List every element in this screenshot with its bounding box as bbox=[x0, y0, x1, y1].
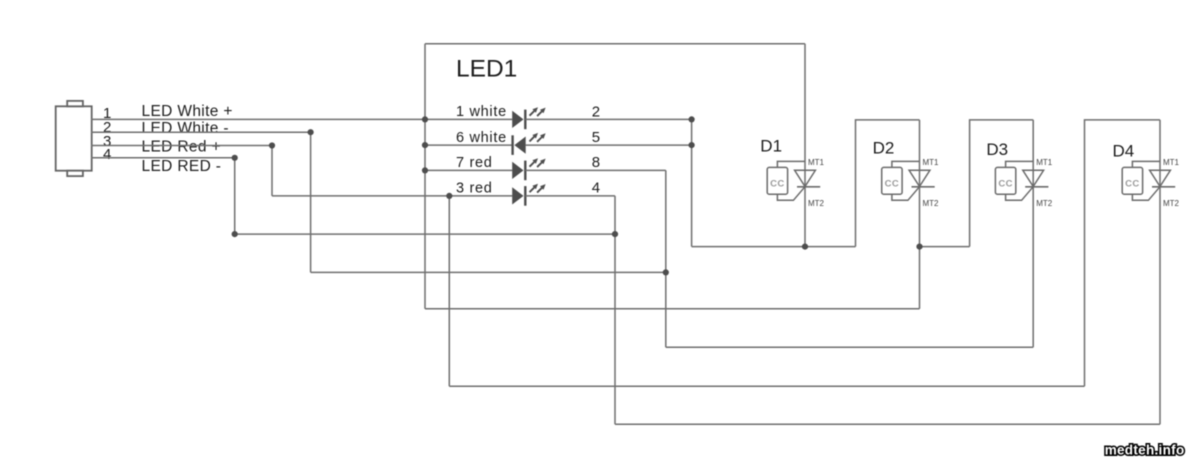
LED row3 light arrows bbox=[530, 158, 546, 167]
triac D3 with CC trigger bbox=[995, 158, 1052, 208]
wire pin2 horizontal (LED White -) bbox=[91, 131, 311, 133]
node dot wire1 at bus bbox=[422, 116, 428, 122]
wire D1 main vertical bbox=[804, 44, 806, 247]
svg-text:3 red: 3 red bbox=[456, 181, 493, 197]
node dot pin8 net junction bbox=[663, 269, 669, 275]
node dot D2 MT2 bbox=[916, 244, 922, 250]
wire D4 feed vertical from row4 node bbox=[448, 196, 450, 386]
wire D2 MT2 stub right bbox=[920, 246, 970, 248]
svg-text:LED RED -: LED RED - bbox=[142, 158, 222, 175]
svg-text:2: 2 bbox=[592, 103, 600, 120]
wire D2 MT2 return to bus bbox=[425, 308, 920, 310]
wire LED1 pin5 output bbox=[526, 144, 692, 146]
node dot output2 corner bbox=[689, 116, 695, 122]
connector J1 body bbox=[56, 101, 92, 176]
wire D4 MT2 return to node x615 bbox=[615, 423, 1160, 425]
LED D row3 red bbox=[512, 161, 525, 181]
wire node x615 vertical (pin4 net) bbox=[614, 196, 616, 424]
wire D4 feed bottom run bbox=[449, 385, 1084, 387]
wire pin4 bottom run to node x615 bbox=[235, 233, 615, 235]
wire pin3 horizontal (LED Red +) bbox=[91, 145, 272, 147]
svg-text:7 red: 7 red bbox=[456, 155, 493, 171]
svg-text:1 white: 1 white bbox=[456, 104, 507, 120]
node dot D1 MT2 bbox=[802, 244, 808, 250]
triac D4 with CC trigger bbox=[1122, 158, 1179, 208]
node dot row4 branch bbox=[446, 193, 452, 199]
svg-text:D4: D4 bbox=[1113, 142, 1135, 161]
LED D row4 red bbox=[512, 186, 525, 206]
svg-text:LED White +: LED White + bbox=[142, 103, 233, 120]
wire riser to D2 MT1 bbox=[856, 120, 920, 247]
svg-text:4: 4 bbox=[592, 180, 600, 197]
wire row2 stub from bus bbox=[425, 144, 513, 146]
wire D4 feed riser to MT1 bbox=[1085, 120, 1161, 386]
svg-text:8: 8 bbox=[592, 154, 600, 171]
svg-text:D2: D2 bbox=[873, 139, 895, 158]
wire LED1 pin8 output bbox=[525, 169, 666, 171]
wire D2 main vertical bbox=[919, 120, 921, 309]
svg-text:LED1: LED1 bbox=[456, 56, 517, 83]
svg-text:LED Red +: LED Red + bbox=[142, 139, 221, 156]
wire riser to D3 MT1 bbox=[970, 120, 1034, 247]
node dot wire4 bottom corner bbox=[232, 231, 238, 237]
node dot row2 at bus bbox=[422, 142, 428, 148]
LED row2 light arrows bbox=[530, 133, 546, 142]
svg-text:D3: D3 bbox=[986, 140, 1008, 159]
svg-text:medteh.info: medteh.info bbox=[1105, 443, 1185, 458]
triac D2 with CC trigger bbox=[882, 158, 939, 208]
node dot wire4 corner bbox=[232, 155, 238, 161]
wire row4 input from pin3 leg bbox=[272, 195, 512, 197]
LED D row2 white reversed bbox=[513, 135, 526, 155]
svg-text:LED White -: LED White - bbox=[142, 120, 229, 137]
svg-text:5: 5 bbox=[592, 129, 600, 146]
svg-text:6 white: 6 white bbox=[456, 130, 507, 146]
wire pin2 vertical leg bbox=[310, 132, 312, 272]
node dot wire2 corner bbox=[308, 129, 314, 135]
wire D1 MT2 rail bbox=[692, 246, 856, 248]
wire outputs 2+5 vertical x692 bbox=[691, 119, 693, 246]
wire row3 stub from bus bbox=[425, 169, 512, 171]
wire bus vertical x425 (LED White + net) bbox=[424, 44, 426, 309]
wire pin2 bottom run to node x666 bbox=[311, 271, 666, 273]
svg-text:D1: D1 bbox=[760, 137, 782, 156]
node dot row3 at bus bbox=[422, 167, 428, 173]
wire pin1 to LED1 pin1 (LED White +) bbox=[91, 118, 512, 120]
wire LED1 pin4 output bbox=[525, 195, 615, 197]
wire D3 main vertical bbox=[1032, 120, 1034, 347]
node dot pin4 net junction bbox=[612, 231, 618, 237]
wire pin3 vertical leg bbox=[271, 146, 273, 196]
wire pin4 vertical leg bbox=[234, 158, 236, 234]
wire LED1 pin2 output bbox=[525, 118, 691, 120]
wire D3 MT2 return to node x666 bbox=[666, 346, 1033, 348]
LED row4 light arrows bbox=[530, 184, 546, 193]
wire pin4 horizontal (LED RED -) bbox=[91, 157, 235, 159]
wire top feed to D1 MT1 bbox=[425, 43, 805, 45]
node dot wire3 corner bbox=[269, 142, 275, 148]
wire D4 main vertical bbox=[1159, 120, 1161, 424]
svg-text:4: 4 bbox=[103, 146, 111, 163]
node dot output5 junction bbox=[689, 142, 695, 148]
triac D1 with CC trigger bbox=[767, 158, 824, 208]
LED D row1 white bbox=[512, 110, 525, 130]
wire node x666 vertical (pin8 net) bbox=[665, 170, 667, 347]
LED row1 light arrows bbox=[530, 107, 546, 116]
